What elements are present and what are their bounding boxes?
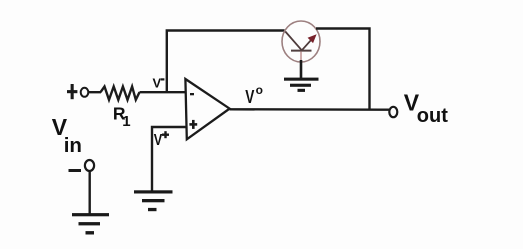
wire transistor to right corner and down to output bbox=[316, 29, 370, 110]
terminal Vout circle bbox=[389, 107, 397, 117]
op-amp U1 bbox=[185, 79, 229, 139]
svg-text:V: V bbox=[245, 87, 254, 107]
svg-text:V: V bbox=[154, 132, 163, 150]
wire feedback vertical from V- node up bbox=[167, 31, 285, 93]
svg-text:out: out bbox=[417, 105, 448, 127]
terminal Vin minus bbox=[69, 160, 95, 172]
svg-text:in: in bbox=[64, 134, 82, 157]
wire op-amp output bbox=[230, 108, 389, 111]
node V output label bbox=[245, 83, 263, 108]
node V- label bbox=[153, 75, 165, 90]
node V+ label bbox=[154, 131, 169, 149]
wire transistor base lead to ground bbox=[300, 60, 303, 78]
wire non-inverting input to ground bbox=[152, 127, 186, 191]
wire resistor to op-amp inverting input bbox=[140, 91, 186, 93]
svg-text:V: V bbox=[153, 75, 162, 90]
terminal circle input bbox=[81, 88, 89, 97]
svg-text:1: 1 bbox=[122, 113, 130, 130]
resistor R1 bbox=[101, 87, 140, 100]
wire terminal to resistor bbox=[88, 91, 101, 93]
ground under Vin bbox=[72, 213, 109, 234]
ground under op-amp non-inverting input bbox=[134, 190, 173, 211]
node plus input terminal bbox=[67, 84, 77, 99]
svg-text:o: o bbox=[256, 83, 263, 97]
wire Vin terminal to ground bbox=[88, 171, 90, 214]
label Vout bbox=[404, 89, 448, 127]
ground under transistor bbox=[284, 78, 319, 92]
label Vin bbox=[52, 114, 82, 157]
transistor Q1 bbox=[282, 21, 320, 62]
